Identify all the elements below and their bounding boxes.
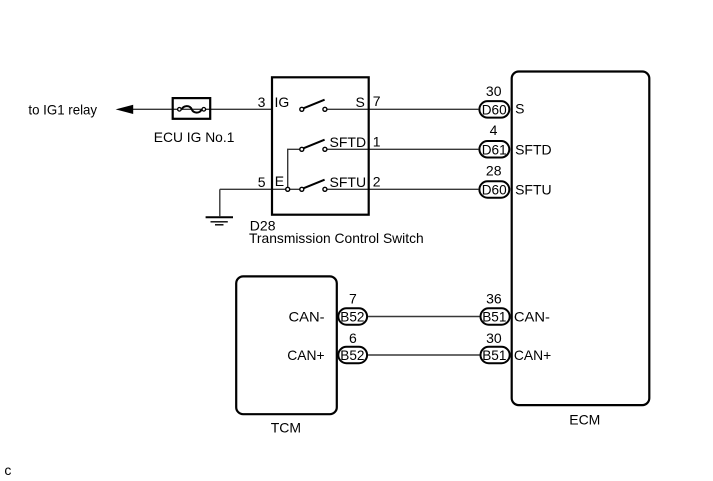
svg-text:CAN+: CAN+ <box>287 347 324 363</box>
svg-text:D60: D60 <box>482 182 507 198</box>
svg-text:CAN+: CAN+ <box>514 347 551 363</box>
svg-text:SFTU: SFTU <box>515 181 552 197</box>
svg-text:5: 5 <box>258 174 266 190</box>
svg-text:B51: B51 <box>482 309 506 325</box>
svg-text:TCM: TCM <box>271 420 301 436</box>
svg-text:c: c <box>4 462 11 478</box>
svg-text:2: 2 <box>373 174 381 190</box>
svg-text:CAN-: CAN- <box>514 308 550 324</box>
svg-text:B52: B52 <box>340 309 364 325</box>
svg-text:3: 3 <box>258 94 266 110</box>
svg-text:D61: D61 <box>482 141 507 157</box>
svg-text:7: 7 <box>349 290 357 306</box>
svg-text:IG: IG <box>275 94 290 110</box>
svg-text:SFTD: SFTD <box>515 141 552 157</box>
svg-text:6: 6 <box>349 330 357 346</box>
svg-text:ECU IG No.1: ECU IG No.1 <box>154 129 235 145</box>
svg-text:30: 30 <box>486 83 502 99</box>
svg-text:7: 7 <box>373 93 381 109</box>
svg-text:4: 4 <box>490 122 498 138</box>
svg-text:1: 1 <box>373 134 381 150</box>
svg-text:to IG1 relay: to IG1 relay <box>28 102 97 118</box>
svg-text:E: E <box>275 173 284 189</box>
svg-text:28: 28 <box>486 162 502 178</box>
svg-text:30: 30 <box>486 330 502 346</box>
svg-text:B52: B52 <box>340 347 364 363</box>
svg-text:S: S <box>515 100 524 116</box>
svg-text:S: S <box>356 94 365 110</box>
svg-text:B51: B51 <box>482 347 506 363</box>
svg-text:SFTD: SFTD <box>330 134 367 150</box>
svg-text:D60: D60 <box>482 101 507 117</box>
svg-text:ECM: ECM <box>569 411 600 427</box>
svg-text:SFTU: SFTU <box>330 174 367 190</box>
svg-text:Transmission Control Switch: Transmission Control Switch <box>249 230 424 246</box>
svg-text:36: 36 <box>486 290 502 306</box>
svg-text:CAN-: CAN- <box>289 308 325 324</box>
